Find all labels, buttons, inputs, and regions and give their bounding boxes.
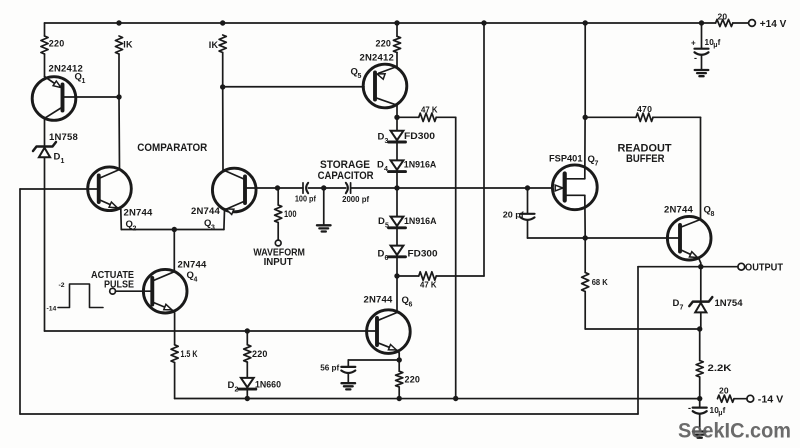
svg-text:220: 220	[376, 39, 392, 49]
text STORAGE CAPACITOR	[318, 159, 374, 182]
node Q6 emitter	[397, 357, 402, 362]
svg-text:20: 20	[719, 386, 729, 396]
svg-text:FD300: FD300	[404, 131, 435, 142]
svg-text:f: f	[718, 38, 721, 47]
svg-text:CAPACITOR: CAPACITOR	[318, 170, 374, 182]
svg-text:47 K: 47 K	[420, 280, 437, 290]
svg-text:220: 220	[405, 374, 421, 384]
node rail-2.2K-10uf	[697, 396, 702, 401]
svg-text:20: 20	[718, 12, 728, 22]
svg-text:1N758: 1N758	[49, 132, 78, 143]
resistor 220 (Q6 emitter)	[396, 360, 421, 399]
text READOUT BUFFER	[618, 143, 672, 166]
svg-text:IK: IK	[209, 40, 219, 50]
zener diode D7 1N754	[673, 267, 744, 329]
resistor 2.2K	[696, 329, 732, 399]
svg-text:68 K: 68 K	[592, 277, 609, 287]
svg-text:FD300: FD300	[408, 249, 438, 260]
svg-text:1N916A: 1N916A	[404, 216, 437, 227]
node storage-100ohm	[275, 185, 280, 190]
wire storage to Q7 gate	[528, 187, 563, 189]
svg-text:220: 220	[49, 39, 65, 49]
svg-text:-2: -2	[59, 282, 65, 289]
svg-text:IK: IK	[123, 40, 133, 50]
svg-text:7: 7	[680, 305, 684, 312]
svg-text:D: D	[377, 160, 384, 171]
diode D4 1N916A	[377, 160, 436, 189]
wire comparator emitters	[121, 229, 224, 231]
node rail-1K-a	[116, 20, 121, 25]
node 1K-Q3-Q5base	[220, 84, 225, 89]
svg-text:6: 6	[385, 255, 389, 262]
node 470-Q7drain	[583, 115, 588, 120]
svg-text:2000 pf: 2000 pf	[342, 194, 369, 204]
svg-text:2N744: 2N744	[124, 208, 154, 219]
node storage-20pf	[525, 185, 530, 190]
resistor 20 (+14V feed)	[716, 12, 733, 27]
node storage-diodes	[394, 185, 399, 190]
svg-text:47 K: 47 K	[421, 105, 438, 115]
wire Q3 base to storage line	[245, 187, 278, 189]
diode D2 1N660	[228, 362, 282, 398]
watermark SeekIC.com	[678, 419, 791, 443]
svg-text:3: 3	[385, 138, 389, 145]
node rail-220-Q5	[394, 20, 399, 25]
svg-text:INPUT: INPUT	[264, 257, 293, 268]
wire 47K to -14V rail	[455, 117, 457, 398]
svg-text:100 pf: 100 pf	[295, 194, 316, 204]
transistor Q6 2N744	[364, 276, 413, 360]
node Q1-base-1K	[116, 94, 121, 99]
svg-text:D: D	[378, 249, 385, 260]
diode D3 FD300	[378, 117, 436, 160]
svg-text:1: 1	[61, 158, 65, 165]
wire D1/Q6 base line	[45, 330, 378, 332]
node 220-D2 branch	[245, 328, 250, 333]
svg-text:5: 5	[385, 223, 389, 230]
wire top +14V supply rail	[45, 22, 749, 24]
wire storage line left	[278, 187, 304, 189]
terminal -14V	[747, 395, 784, 406]
capacitor 20pf	[503, 188, 535, 238]
svg-text:20 pf: 20 pf	[503, 210, 524, 220]
terminal waveform input	[253, 240, 305, 268]
node storage-ground	[321, 185, 326, 190]
node D6 - 47K - Q6 collector	[394, 273, 399, 278]
wire rail to Q7 drain	[584, 23, 586, 117]
svg-text:1N916A: 1N916A	[404, 160, 437, 171]
wire 68K to D7 anode	[585, 328, 700, 330]
wire to Q5 base	[223, 86, 364, 88]
svg-text:220: 220	[252, 349, 268, 359]
wire output feedback loop	[20, 189, 701, 414]
resistor 470	[585, 104, 700, 122]
resistor 100 (waveform input)	[275, 188, 297, 240]
FET Q7 FSP401	[549, 117, 599, 238]
wire Q6 emitter to 56pf	[348, 360, 399, 367]
svg-text:+: +	[691, 39, 696, 48]
svg-text:2N744: 2N744	[664, 205, 694, 216]
node rail-47K	[481, 20, 486, 25]
svg-text:-: -	[688, 403, 691, 413]
ground (storage capacitor)	[317, 188, 331, 232]
wire Q2 base to feedback rail	[20, 188, 99, 190]
wire 470 to Q8 collector	[700, 117, 702, 219]
ground (10uf +14V)	[695, 70, 709, 76]
svg-text:2N744: 2N744	[191, 206, 221, 217]
wire 100pf to ground node	[308, 187, 345, 189]
svg-text:2: 2	[235, 387, 239, 394]
wire Q1 base to 1K node	[63, 96, 120, 98]
ground (56pf)	[342, 383, 356, 389]
resistor 220 (Q5 emitter)	[376, 23, 401, 67]
capacitor 56pf	[320, 363, 355, 384]
terminal actuate pulse	[91, 270, 152, 294]
node rail-10uf	[699, 20, 704, 25]
svg-text:D: D	[673, 298, 680, 309]
resistor 20 (-14V feed)	[718, 386, 735, 403]
resistor 220 (Q6 base bias)	[244, 331, 268, 362]
resistor 47K (upper)	[397, 105, 456, 122]
svg-text:2.2K: 2.2K	[708, 363, 733, 373]
svg-text:1N660: 1N660	[255, 380, 281, 391]
node Q5 collector - 47K - D3	[394, 115, 399, 120]
svg-text:470: 470	[637, 104, 652, 114]
wire output	[701, 266, 738, 268]
node Q7 source - Q8 base	[583, 235, 588, 240]
capacitor 10uf (-14V)	[688, 399, 726, 431]
svg-text:4: 4	[194, 277, 198, 284]
svg-text:4: 4	[384, 166, 388, 173]
svg-text:D: D	[378, 216, 385, 227]
capacitor 100pf	[295, 183, 316, 204]
resistor 1K (Q1/Q2 collector load)	[115, 36, 133, 170]
svg-text:COMPARATOR: COMPARATOR	[137, 142, 207, 154]
svg-text:2N744: 2N744	[178, 260, 208, 271]
svg-text:1.5 K: 1.5 K	[181, 349, 198, 359]
text COMPARATOR	[137, 142, 207, 154]
ground (10uf -14V)	[693, 432, 707, 438]
node Q8 emitter - output	[698, 264, 703, 269]
svg-text:FSP401: FSP401	[549, 154, 583, 165]
node rail-1K-b	[220, 20, 225, 25]
svg-text:D: D	[228, 380, 235, 391]
resistor 220 (Q1 emitter)	[41, 23, 65, 54]
svg-text:100: 100	[284, 209, 297, 219]
resistor 1.5K (Q4 emitter)	[171, 345, 198, 399]
svg-text:1N754: 1N754	[715, 298, 744, 309]
diode D6 FD300	[378, 246, 438, 276]
svg-text:D: D	[54, 152, 61, 163]
node emitters-Q4-collector	[172, 227, 177, 232]
wire 20pf / Q7 source to Q8 base	[528, 237, 681, 239]
transistor Q8 2N744	[664, 205, 715, 267]
transistor Q1 2N2412	[32, 54, 85, 146]
node D7 - 68K - 2.2K	[697, 326, 702, 331]
transistor Q5 2N2412	[351, 53, 407, 118]
capacitor 10uf (+14V)	[691, 23, 721, 70]
svg-text:5: 5	[358, 73, 362, 80]
wire storage line right	[351, 187, 528, 189]
svg-text:BUFFER: BUFFER	[626, 153, 665, 165]
svg-text:OUTPUT: OUTPUT	[745, 263, 783, 274]
node rail-D2	[245, 396, 250, 401]
node rail-47K-wire	[453, 396, 458, 401]
node rail-220-Q6	[397, 396, 402, 401]
actuate pulse waveform symbol	[47, 282, 104, 313]
svg-text:-: -	[694, 53, 697, 63]
svg-text:-14 V: -14 V	[758, 395, 784, 406]
transistor Q3 2N744	[191, 168, 256, 231]
resistor 68K	[582, 238, 609, 329]
svg-text:PULSE: PULSE	[104, 280, 134, 291]
svg-text:3: 3	[211, 225, 215, 232]
svg-text:SeekIC.com: SeekIC.com	[678, 419, 791, 443]
svg-text:56 pf: 56 pf	[320, 363, 339, 373]
svg-text:f: f	[723, 406, 726, 415]
diode D5 1N916A	[378, 188, 437, 246]
svg-text:1: 1	[82, 78, 86, 85]
terminal OUTPUT	[738, 263, 783, 274]
svg-text:D: D	[378, 132, 385, 143]
capacitor 2000pf (storage)	[342, 183, 369, 204]
node rail-Q7-drain	[583, 20, 588, 25]
svg-text:8: 8	[711, 211, 715, 218]
svg-text:2N2412: 2N2412	[360, 53, 394, 64]
wire bottom -14V rail	[175, 398, 747, 400]
svg-text:-14: -14	[47, 306, 57, 313]
wire D1 to Q6 base line	[44, 157, 46, 331]
resistor 1K (Q3 collector load)	[209, 35, 227, 170]
resistor 47K (lower)	[397, 272, 484, 290]
transistor Q4 2N744	[143, 230, 207, 345]
transistor Q2 2N744	[88, 167, 153, 233]
zener diode D1 1N758	[33, 132, 78, 165]
terminal +14V	[749, 19, 787, 30]
svg-text:7: 7	[595, 161, 599, 168]
wire 47K lower to +14V rail	[483, 23, 485, 276]
svg-text:6: 6	[409, 302, 413, 309]
svg-text:2N744: 2N744	[364, 295, 394, 306]
svg-text:+14 V: +14 V	[760, 19, 787, 30]
